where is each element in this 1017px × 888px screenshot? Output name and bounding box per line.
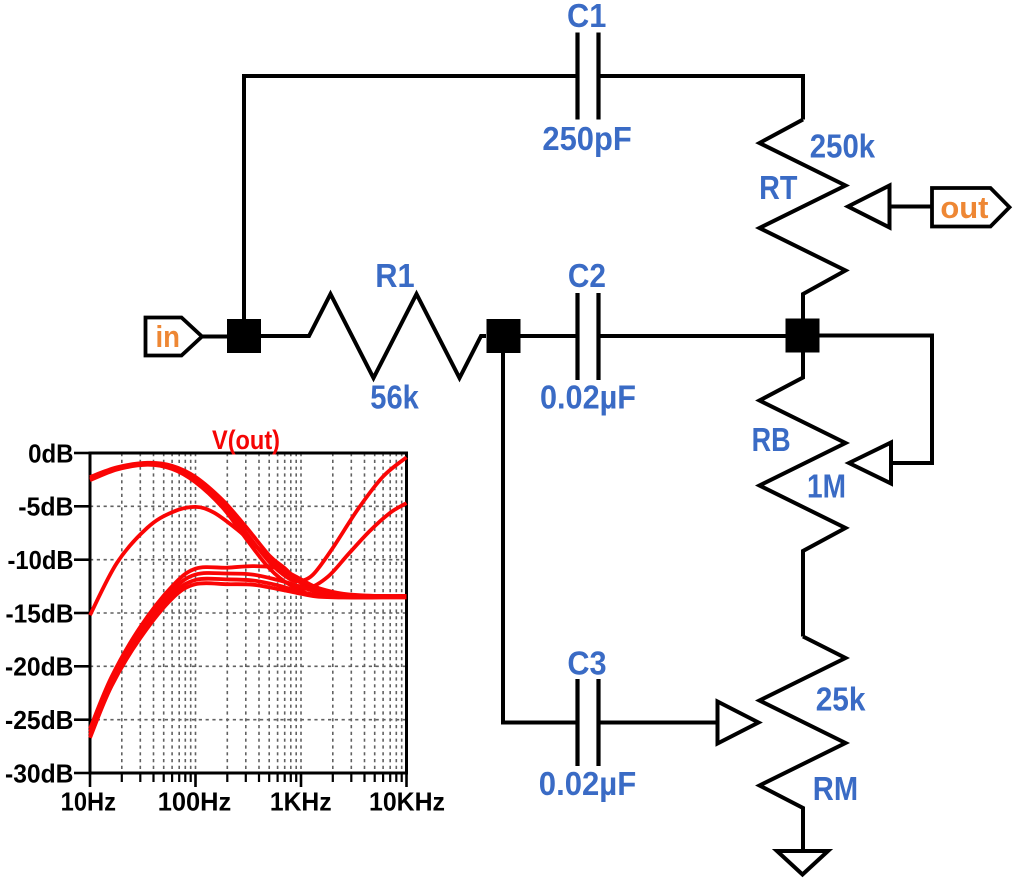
- svg-text:10Hz: 10Hz: [61, 786, 116, 816]
- svg-text:R1: R1: [375, 257, 414, 294]
- svg-text:C1: C1: [567, 0, 606, 34]
- svg-text:RM: RM: [813, 770, 858, 807]
- svg-text:0dB: 0dB: [28, 438, 73, 468]
- svg-text:-10dB: -10dB: [8, 545, 74, 575]
- svg-text:-25dB: -25dB: [5, 705, 74, 735]
- svg-text:10KHz: 10KHz: [369, 786, 445, 816]
- svg-text:-30dB: -30dB: [5, 758, 74, 788]
- svg-text:out: out: [940, 190, 988, 225]
- svg-text:0.02µF: 0.02µF: [540, 378, 636, 415]
- svg-text:-5dB: -5dB: [18, 492, 73, 522]
- svg-text:56k: 56k: [370, 378, 419, 415]
- svg-text:0.02µF: 0.02µF: [539, 765, 636, 802]
- svg-text:250pF: 250pF: [542, 120, 631, 157]
- svg-text:25k: 25k: [816, 681, 866, 718]
- svg-text:250k: 250k: [810, 127, 876, 164]
- svg-text:-20dB: -20dB: [5, 652, 74, 682]
- svg-text:1KHz: 1KHz: [270, 786, 332, 816]
- svg-text:C3: C3: [567, 645, 606, 682]
- svg-text:C2: C2: [568, 257, 606, 294]
- svg-text:RB: RB: [752, 421, 791, 458]
- svg-text:in: in: [156, 319, 181, 354]
- svg-text:RT: RT: [759, 169, 797, 206]
- svg-text:100Hz: 100Hz: [158, 786, 232, 816]
- svg-text:V(out): V(out): [212, 425, 280, 455]
- svg-text:1M: 1M: [807, 468, 846, 505]
- svg-text:-15dB: -15dB: [6, 598, 74, 628]
